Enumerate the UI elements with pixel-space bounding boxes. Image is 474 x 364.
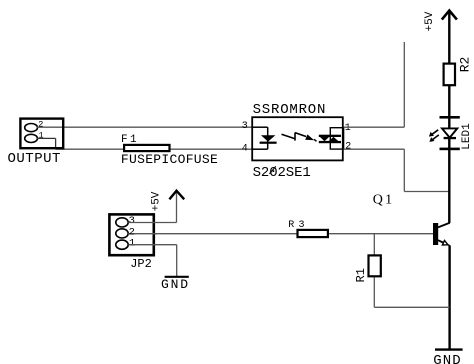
svg-text:GND: GND	[161, 277, 190, 292]
+5V supply arrow above JP2	[150, 191, 184, 212]
svg-text:R1: R1	[354, 268, 368, 282]
ground GND below JP2	[161, 277, 190, 292]
svg-text:GND: GND	[433, 353, 462, 364]
resistor R3	[288, 220, 328, 237]
svg-text:OUTPUT: OUTPUT	[8, 151, 61, 167]
resistor R2	[444, 57, 473, 86]
svg-text:Q1: Q1	[373, 192, 395, 207]
input LED of opto (internal)	[252, 127, 277, 149]
transistor Q1	[373, 192, 450, 245]
trigger arrow (internal)	[282, 133, 317, 142]
triac (internal)	[319, 128, 344, 149]
svg-text:2: 2	[38, 120, 43, 130]
wire: emitter down to ground	[448, 245, 450, 349]
wire rail B: OUTPUT pin 1 through fuse F1 to SSR pin 4	[36, 137, 56, 139]
svg-text:S202SE1: S202SE1	[253, 165, 311, 181]
svg-text:JP2: JP2	[130, 257, 152, 271]
svg-text:F1: F1	[121, 134, 139, 146]
svg-text:3: 3	[242, 121, 248, 132]
wire: base rail from JP2 pin 2 through R3 to Q1 base	[128, 233, 433, 235]
+5V supply arrow top right	[424, 11, 457, 32]
connector JP2	[109, 214, 157, 271]
wire: JP2 pin 1 to ground	[128, 244, 176, 246]
wire: main +5V branch	[448, 11, 450, 117]
ground GND bottom right	[433, 350, 462, 364]
svg-text:3: 3	[129, 215, 135, 227]
wire: R1 branch	[373, 234, 375, 308]
opto-triac U1 SSR OMRON	[252, 102, 343, 181]
svg-text:LED1: LED1	[461, 123, 473, 150]
svg-text:R3: R3	[288, 220, 308, 231]
svg-text:+5V: +5V	[424, 11, 436, 31]
svg-text:1: 1	[129, 237, 135, 249]
svg-text:4: 4	[242, 143, 248, 154]
wire: SSR pin 2 to LED cathode node	[344, 148, 405, 150]
fuse F1	[121, 134, 218, 167]
svg-text:FUSEPICOFUSE: FUSEPICOFUSE	[121, 152, 218, 167]
LED1	[429, 116, 473, 150]
svg-text:+5V: +5V	[150, 191, 162, 211]
svg-text:1: 1	[39, 131, 44, 141]
wire: SSR pin 1 stub up	[344, 126, 405, 128]
svg-text:1: 1	[345, 123, 351, 134]
svg-text:SSROMRON: SSROMRON	[253, 102, 327, 118]
wire rail A: OUTPUT pin 2 to SSR pin 3	[37, 126, 252, 128]
wire: JP2 pin 3 to +5V	[128, 222, 176, 224]
svg-text:R2: R2	[457, 57, 472, 73]
connector OUTPUT	[8, 119, 64, 167]
svg-text:2: 2	[345, 142, 351, 153]
resistor R1	[354, 255, 381, 282]
